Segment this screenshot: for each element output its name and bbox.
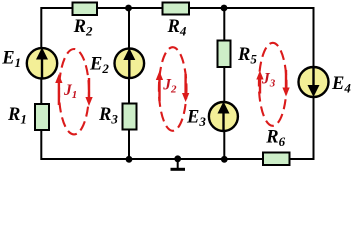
J3 left arrow (up) — [256, 71, 263, 94]
wire left branch — [40, 7, 42, 160]
source E1 — [27, 48, 57, 79]
resistor R2 — [73, 3, 98, 16]
resistor R3 — [123, 104, 137, 130]
junction node top of branch 3 — [221, 5, 228, 12]
ground — [171, 159, 186, 169]
source E2 — [115, 48, 145, 78]
junction node ground — [174, 155, 181, 162]
resistor R1 — [35, 104, 49, 130]
source E4 (arrow down) — [299, 67, 329, 97]
junction node bottom of branch 3 — [221, 156, 228, 163]
J1 right arrow (down) — [85, 78, 92, 106]
junction node bottom of branch 2 — [126, 156, 133, 163]
J3 right arrow (down) — [282, 70, 289, 97]
wire bottom — [41, 158, 314, 160]
resistor R4 — [163, 3, 190, 15]
mesh current J3 loop — [259, 43, 287, 126]
J1 left arrow (up) — [55, 74, 62, 105]
source E3 — [209, 102, 238, 132]
wire branch 3 — [223, 8, 225, 159]
resistor R5 — [218, 41, 231, 68]
junction node top of branch 2 — [125, 5, 132, 12]
wire top — [41, 7, 313, 9]
mesh current J2 loop — [159, 47, 187, 131]
J2 left arrow (up) — [156, 71, 163, 101]
mesh current J1 loop — [59, 49, 89, 134]
J2 right arrow (down) — [182, 74, 189, 102]
wire branch 2 — [128, 8, 130, 159]
wire right branch — [313, 7, 315, 160]
resistor R6 — [263, 153, 290, 166]
